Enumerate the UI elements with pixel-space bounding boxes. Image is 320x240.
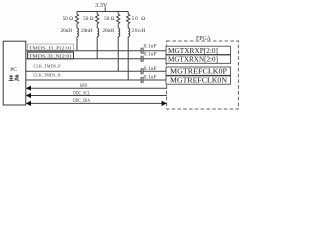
svg-text:PC: PC: [10, 67, 17, 73]
svg-text:HPD: HPD: [80, 84, 87, 89]
wire3 CLK_TMDS_P: [26, 70, 141, 72]
inductor 20nH branch4: [128, 28, 130, 36]
wire branch3 to wire3: [117, 37, 119, 72]
wire 3.3V rail: [77, 11, 128, 13]
FPGA pin box MGTXRXN[2:0]: [166, 55, 231, 63]
svg-text:TMDS_D_N[2:0]: TMDS_D_N[2:0]: [29, 53, 72, 58]
arrow DDC_SDA into PC: [26, 101, 31, 106]
svg-text:0.1uF: 0.1uF: [144, 53, 157, 58]
svg-text:50 Ω: 50 Ω: [63, 16, 73, 22]
FPGA dashed box: [167, 41, 239, 109]
wire DDC_SCL: [30, 95, 167, 97]
resistor 50Ω branch3: [117, 14, 120, 24]
wire2 TMDS_D_N: [26, 58, 141, 60]
svg-text:3.3V: 3.3V: [95, 2, 108, 9]
wire rail drop branch3: [117, 12, 119, 15]
svg-text:TMDS_D_P[2:0]: TMDS_D_P[2:0]: [29, 45, 72, 50]
wire branch2 to wire2: [96, 37, 98, 59]
inductor 20nH branch3: [118, 28, 120, 36]
wire1 TMDS_D_P: [26, 50, 141, 52]
svg-text:0.1uF: 0.1uF: [144, 67, 157, 72]
inductor 20nH branch2: [97, 28, 99, 36]
resistor 50Ω branch4: [127, 14, 130, 24]
svg-text:MGTREFCLK0P: MGTREFCLK0P: [170, 67, 227, 76]
wire rail drop branch1: [76, 12, 78, 15]
capacitor C2 0.1uF: [141, 56, 143, 62]
svg-text:DDC_SDA: DDC_SDA: [73, 99, 90, 104]
FPGA pin box MGTREFCLK0P: [166, 67, 231, 75]
svg-text:20nH: 20nH: [132, 28, 146, 34]
wire rail drop branch2: [96, 12, 98, 15]
FPGA pin box MGTXRXP[2:0]: [166, 46, 231, 54]
wire HPD: [30, 87, 167, 89]
wire branch3 R-L: [117, 24, 119, 29]
svg-text:FPGA: FPGA: [196, 36, 212, 42]
inductor 20nH branch1: [77, 28, 79, 36]
PC host box: [3, 41, 26, 105]
svg-text:CLK_TMDS_P: CLK_TMDS_P: [34, 64, 61, 69]
svg-text:0.1uF: 0.1uF: [144, 76, 157, 81]
wire branch1 to wire1: [76, 37, 78, 51]
arrow DDC_SCL into PC: [26, 93, 31, 98]
svg-text:20nH: 20nH: [60, 28, 72, 34]
resistor 50Ω branch2: [96, 14, 99, 24]
svg-text:20nH: 20nH: [81, 28, 93, 34]
wire branch2 R-L: [96, 24, 98, 29]
svg-text:MGTXRXP[2:0]: MGTXRXP[2:0]: [168, 46, 218, 55]
net label box TMDS_D_N[2:0]: [28, 52, 74, 59]
resistor 50Ω branch1: [75, 14, 78, 24]
wire 3.3V stub: [104, 7, 106, 11]
svg-text:MGTXRXN[2:0]: MGTXRXN[2:0]: [168, 55, 218, 64]
capacitor C3 0.1uF: [141, 68, 143, 74]
svg-text:DDC_SCL: DDC_SCL: [73, 91, 90, 96]
capacitor C4 0.1uF: [141, 77, 143, 83]
wire DDC_SDA: [30, 102, 162, 104]
arrow HPD into PC: [26, 86, 31, 91]
capacitor C1 0.1uF: [141, 48, 143, 54]
wire branch4 to wire4: [127, 37, 129, 80]
svg-text:0.1uF: 0.1uF: [144, 44, 157, 49]
svg-text:CLK_TMDS_N: CLK_TMDS_N: [34, 73, 62, 78]
wire rail drop branch4: [127, 12, 129, 15]
svg-text:20nH: 20nH: [102, 28, 114, 34]
arrow DDC_SDA into FPGA: [162, 101, 167, 106]
net label box TMDS_D_P[2:0]: [28, 44, 74, 51]
svg-text:50 Ω: 50 Ω: [104, 16, 114, 22]
svg-text:50 Ω: 50 Ω: [132, 16, 146, 22]
wire4 CLK_TMDS_N: [26, 79, 141, 81]
PC host box label 主机 (drawn strokes): [9, 75, 20, 81]
FPGA pin box MGTREFCLK0N: [166, 76, 231, 84]
wire branch4 R-L: [127, 24, 129, 29]
wire branch1 R-L: [76, 24, 78, 29]
svg-text:MGTREFCLK0N: MGTREFCLK0N: [170, 76, 228, 85]
svg-text:50 Ω: 50 Ω: [83, 16, 93, 22]
